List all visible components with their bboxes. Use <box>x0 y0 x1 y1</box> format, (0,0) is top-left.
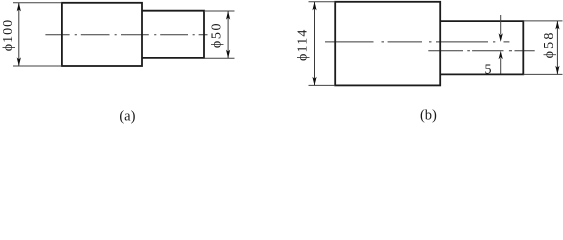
small cylinder (a) outline <box>142 11 204 58</box>
dimension line φ100 <box>18 3 20 66</box>
dimension φ50 (a) <box>204 11 235 58</box>
dimension φ58 (b) <box>523 21 562 75</box>
svg-text:ϕ50: ϕ50 <box>210 22 225 48</box>
centerline (b) small cylinder axis (offset) <box>428 50 534 52</box>
arrowhead down φ100 <box>17 57 21 66</box>
svg-text:5: 5 <box>485 62 492 77</box>
arrowhead up φ50 <box>226 11 230 20</box>
small cylinder (b) outline <box>440 21 523 74</box>
svg-text:ϕ114: ϕ114 <box>295 28 310 61</box>
dimension line φ114 <box>314 2 316 86</box>
extension line bottom (a) <box>13 65 62 67</box>
svg-text:ϕ58: ϕ58 <box>542 30 557 58</box>
svg-text:(a): (a) <box>119 108 135 124</box>
centerline (a) shaft axis <box>45 34 207 36</box>
dimension line φ58 <box>556 21 558 75</box>
extension line bottom (b) <box>309 84 336 86</box>
arrowhead down φ50 <box>226 50 230 59</box>
large cylinder (b) outline <box>335 2 440 86</box>
svg-text:(b): (b) <box>420 107 437 123</box>
extension line bottom (a small) <box>204 57 235 59</box>
dimension φ114 (b) <box>295 2 335 86</box>
extension line bottom (b small) <box>523 73 562 75</box>
arrowhead down at large axis <box>499 33 503 42</box>
extension line top (a small) <box>204 10 235 12</box>
dimension line φ50 <box>227 11 229 58</box>
centerline (b) large cylinder axis <box>325 41 509 43</box>
extension line top (b) <box>309 1 336 3</box>
large cylinder (a) outline <box>62 3 142 66</box>
dimension 5 eccentricity (b) <box>485 15 503 77</box>
arrowhead down φ114 <box>312 77 316 86</box>
extension line top (b small) <box>523 20 562 22</box>
arrowhead up φ114 <box>312 2 316 11</box>
leader below, arrow up to small axis <box>500 58 502 73</box>
leader above, arrow down to large axis <box>500 15 502 35</box>
dimension φ100 (a) <box>1 3 62 66</box>
extension line top (a) <box>13 2 62 4</box>
arrowhead up φ58 <box>555 21 559 30</box>
arrowhead up φ100 <box>17 3 21 12</box>
arrowhead down φ58 <box>555 66 559 75</box>
arrowhead up at small axis <box>499 51 503 60</box>
svg-text:ϕ100: ϕ100 <box>1 19 16 51</box>
